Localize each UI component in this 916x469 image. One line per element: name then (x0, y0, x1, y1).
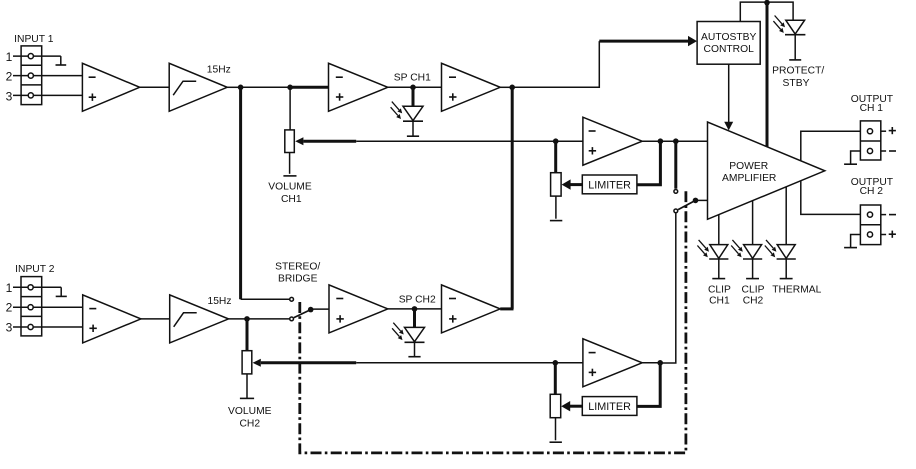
wire U2 out to node A (227, 86, 240, 88)
wire U8 output CH2 (801, 181, 861, 215)
ground at J2 (851, 151, 861, 164)
wire U4 out to node D (500, 86, 512, 88)
node F limiter pot CH1 top (553, 138, 559, 144)
wire node H down to switch S2 (674, 141, 677, 189)
svg-text:CH1: CH1 (281, 194, 302, 205)
wire node G down into LIMITER U7 (637, 141, 661, 185)
wire arrow U7 to R2 (570, 183, 583, 186)
wire U12 out joins node D riser (500, 307, 513, 310)
filter U10 15Hz high-pass CH2 (170, 295, 229, 343)
svg-text:POWER: POWER (729, 161, 768, 172)
node H bridge switch tap (673, 138, 679, 144)
wire feedback CH1 from R1 wiper to U6 (303, 140, 356, 143)
wire node B to U3 (290, 86, 328, 89)
wire node A to node B (241, 86, 291, 88)
wire node E to LED D2 (767, 2, 793, 20)
wire U8 output CH1 (801, 131, 861, 161)
switch S2 stereo/bridge select (674, 190, 678, 194)
svg-text:AUTOSTBY: AUTOSTBY (701, 32, 756, 43)
wire arrow U5 down into U8 (728, 64, 730, 122)
op-amp U3 SP detector CH1 first (329, 63, 388, 111)
LED D3 CLIP CH1 (718, 215, 720, 245)
wire U14 out to node L (642, 362, 660, 364)
wire arrow into AUTOSTBY (599, 40, 689, 43)
svg-text:CLIP: CLIP (742, 284, 765, 295)
wire standby thick drop to amplifier (766, 2, 769, 147)
wire node D down to CH2 SP output (511, 87, 514, 309)
svg-text:CH2: CH2 (239, 418, 260, 429)
wire J1 pin3 to U1 non-inverting input (13, 94, 82, 96)
svg-text:1: 1 (6, 281, 13, 295)
wire bridge feed into S1 upper contact (241, 298, 290, 300)
svg-text:SP CH2: SP CH2 (399, 294, 436, 305)
op-amp U9 input buffer CH2 (83, 295, 141, 343)
potentiometer R1 VOLUME CH1 (285, 130, 295, 153)
filter U2 15Hz high-pass CH1 (169, 63, 227, 111)
block U5 AUTOSTBY CONTROL (697, 22, 760, 65)
wire J4 pin3 to U9 non-inverting input (13, 326, 83, 328)
wire J4 pin1 (13, 286, 61, 288)
wire S2 common to power amp input 2 (696, 199, 708, 201)
wire node K down to R4 (554, 363, 557, 395)
op-amp U11 SP detector CH2 first (329, 285, 388, 333)
svg-text:CH 2: CH 2 (860, 186, 884, 197)
svg-text:3: 3 (6, 321, 13, 335)
svg-text:INPUT 1: INPUT 1 (14, 34, 54, 45)
ground below R3 (240, 397, 254, 399)
LED D4 CLIP CH2 (752, 201, 754, 245)
wire U6 out to power amp input 1 (642, 140, 707, 142)
svg-text:CH 1: CH 1 (860, 103, 884, 114)
svg-text:THERMAL: THERMAL (772, 284, 821, 295)
op-amp U14 limiter driver CH2 (583, 339, 642, 387)
wire U11 out to node J (388, 308, 415, 310)
op-amp U12 SP CH2 second (442, 285, 501, 333)
block U13 LIMITER CH2 (582, 397, 637, 416)
wire node I down to R3 (246, 319, 249, 351)
potentiometer R2 limiter VCA CH1 (551, 173, 562, 196)
wire U3 out to node C (388, 86, 413, 88)
connector J1 body (21, 46, 42, 105)
wire U10 out to node I (229, 318, 248, 320)
svg-text:PROTECT/: PROTECT/ (772, 66, 824, 77)
svg-text:INPUT 2: INPUT 2 (15, 264, 55, 275)
op-amp U4 SP CH1 second (442, 63, 501, 111)
wire arrow U13 to R4 (569, 405, 582, 408)
svg-text:1: 1 (6, 50, 13, 64)
SECTION-CH1 (303, 64, 896, 363)
wire S1 common to U11 (311, 308, 329, 310)
wire bridge feed down from node A (239, 87, 242, 299)
ground below R4 (550, 441, 562, 443)
potentiometer R4 limiter VCA CH2 (550, 394, 561, 417)
LED D5 THERMAL (785, 187, 787, 245)
wire U1 out to U2 (140, 86, 170, 88)
svg-text:CH1: CH1 (709, 296, 730, 307)
ground at J3 (851, 235, 861, 248)
svg-text:15Hz: 15Hz (207, 296, 231, 307)
wire J4 pin2 to U9 inverting input (13, 306, 83, 308)
svg-text:CLIP: CLIP (708, 284, 731, 295)
node J SP CH2 junction (412, 306, 418, 312)
op-amp U6 limiter driver CH1 (583, 117, 642, 165)
ground below R2 (550, 220, 562, 222)
node L limiter tap CH2 (657, 360, 663, 366)
ground at J4 pin1 (60, 287, 62, 296)
svg-text:AMPLIFIER: AMPLIFIER (722, 173, 776, 184)
wire node J to U12 (415, 308, 442, 310)
svg-text:STBY: STBY (783, 78, 810, 89)
potentiometer R3 VOLUME CH2 (242, 351, 252, 374)
LED D2 PROTECT/STBY (786, 20, 805, 34)
svg-text:LIMITER: LIMITER (588, 179, 631, 191)
ground below R1 (283, 175, 296, 177)
node K limiter pot CH2 top (553, 360, 559, 366)
node D SP outputs junction (509, 85, 515, 91)
dash-dot boundary stereo/bridge zone (300, 191, 686, 453)
svg-text:2: 2 (6, 301, 13, 315)
wire node L down into LIMITER U13 (637, 363, 660, 407)
node G limiter tap CH1 (658, 138, 664, 144)
svg-text:CONTROL: CONTROL (704, 44, 755, 55)
svg-text:15Hz: 15Hz (207, 64, 231, 75)
svg-text:STEREO/: STEREO/ (275, 261, 320, 272)
op-amp U1 input buffer CH1 (82, 63, 139, 111)
svg-text:CH2: CH2 (743, 296, 764, 307)
LED D1 SP CH1 indicator (412, 87, 415, 106)
wire J1 pin1 (13, 55, 61, 57)
wire node D to autostby riser (512, 41, 599, 87)
wire node F down to R2 (554, 141, 557, 173)
svg-text:LIMITER: LIMITER (588, 401, 631, 413)
SECTION-MID (6, 191, 686, 453)
wire node B down to R1 (289, 87, 291, 130)
wire U9 out to U10 (141, 318, 170, 320)
wire S2 lower contact down to CH2 signal (660, 214, 676, 364)
wire U5 top to node E (740, 2, 767, 21)
node I filter CH2 output junction (244, 316, 250, 322)
svg-text:SP CH1: SP CH1 (394, 72, 431, 83)
power amplifier U8 (708, 122, 825, 219)
wire node I to switch S1 lower contact (247, 318, 289, 320)
wire J1 pin2 to U1 inverting input (13, 75, 82, 77)
block U7 LIMITER CH1 (582, 175, 637, 194)
node C SP CH1 junction (410, 85, 416, 91)
node A filter CH1 output junction (238, 85, 244, 91)
svg-text:2: 2 (6, 69, 13, 83)
LED D6 SP CH2 indicator (413, 309, 416, 328)
svg-text:3: 3 (6, 89, 13, 103)
svg-text:VOLUME: VOLUME (228, 406, 272, 417)
ground at J1 pin1 (60, 56, 62, 65)
wire feedback CH2 from R3 wiper to U14 (261, 361, 356, 364)
node B volume CH1 top junction (287, 85, 293, 91)
node E standby net junction (764, 0, 770, 5)
connector J4 body (21, 277, 42, 336)
wire node C to U4 (413, 86, 442, 88)
svg-text:VOLUME: VOLUME (268, 182, 312, 193)
svg-text:BRIDGE: BRIDGE (278, 274, 318, 285)
